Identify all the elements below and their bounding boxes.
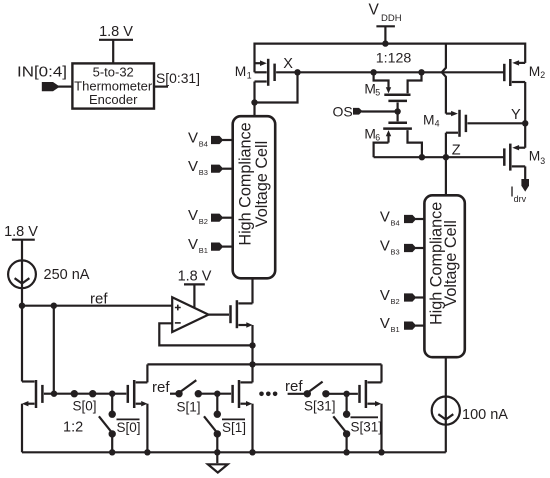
wire ground rail bbox=[22, 449, 446, 455]
svg-text:Z: Z bbox=[452, 143, 461, 159]
svg-text:B2: B2 bbox=[391, 297, 400, 306]
svg-text:4: 4 bbox=[435, 119, 440, 129]
svg-text:S[0]: S[0] bbox=[117, 420, 141, 435]
bias input V_B2 (right) bbox=[380, 287, 425, 306]
svg-text:V: V bbox=[188, 236, 198, 253]
svg-text:6: 6 bbox=[375, 132, 380, 142]
node X bbox=[251, 56, 300, 116]
bias input V_B3 (left) bbox=[188, 158, 233, 177]
svg-text:1.8 V: 1.8 V bbox=[4, 224, 38, 240]
wire VDD top rail bbox=[255, 42, 526, 44]
op-amp A1 bbox=[172, 297, 208, 332]
svg-text:S[31]: S[31] bbox=[304, 399, 336, 414]
transistor cell 0 bbox=[128, 380, 148, 452]
svg-text:B4: B4 bbox=[391, 218, 400, 227]
transistor M1 (PMOS mirror input) bbox=[235, 43, 298, 103]
svg-text:S[31]: S[31] bbox=[351, 420, 383, 435]
svg-text:2: 2 bbox=[540, 70, 545, 80]
svg-text:Voltage Cell: Voltage Cell bbox=[442, 220, 460, 306]
supply 1.8 V (reference branch) bbox=[4, 224, 38, 260]
svg-text:V: V bbox=[188, 207, 198, 224]
transistor mirror input (1:2) bbox=[22, 380, 54, 452]
svg-text:OS: OS bbox=[333, 103, 353, 119]
high compliance voltage cell (left) bbox=[233, 116, 276, 278]
input port IN[0:4] bbox=[17, 64, 72, 91]
high compliance voltage cell (right) bbox=[424, 195, 464, 357]
svg-text:5-to-32: 5-to-32 bbox=[93, 65, 134, 80]
wire drain rail bbox=[147, 361, 381, 382]
svg-text:B4: B4 bbox=[199, 139, 208, 148]
switch S̄[31] bbox=[333, 394, 382, 453]
svg-text:M: M bbox=[364, 82, 376, 97]
transistor M6 bbox=[364, 112, 422, 158]
svg-text:S[1]: S[1] bbox=[177, 400, 201, 415]
transistor cell 31 bbox=[360, 380, 382, 452]
svg-text:V: V bbox=[380, 208, 390, 225]
wire gate line / switch S[0] bbox=[51, 390, 127, 414]
svg-text:Y: Y bbox=[511, 107, 521, 123]
bias input V_B4 (right) bbox=[380, 208, 425, 227]
svg-text:1.8 V: 1.8 V bbox=[178, 269, 212, 285]
svg-text:Voltage Cell: Voltage Cell bbox=[253, 141, 271, 227]
svg-text:ref: ref bbox=[285, 378, 303, 395]
svg-text:M: M bbox=[235, 64, 247, 79]
ground bbox=[208, 452, 228, 472]
input OS bbox=[333, 103, 401, 119]
svg-text:V: V bbox=[188, 129, 198, 146]
supply 1.8 V (op-amp) bbox=[178, 269, 212, 308]
wire current source down to mirror bbox=[21, 288, 23, 381]
supply 1.8 V (encoder) bbox=[99, 24, 133, 63]
svg-text:B1: B1 bbox=[199, 246, 208, 255]
svg-text:S[0:31]: S[0:31] bbox=[156, 71, 200, 86]
svg-text:ref: ref bbox=[152, 379, 170, 396]
svg-text:1:2: 1:2 bbox=[63, 420, 83, 436]
wire right cell to current source bbox=[445, 357, 447, 396]
bias input V_B2 (left) bbox=[188, 207, 233, 226]
wire Z node to right cell bbox=[445, 157, 447, 195]
transistor M4 bbox=[423, 110, 525, 157]
svg-text:M: M bbox=[529, 64, 541, 79]
current source 100 nA bbox=[432, 397, 509, 425]
bias input V_B1 (right) bbox=[380, 315, 425, 334]
svg-text:3: 3 bbox=[540, 156, 545, 166]
cell 1 ref switch S[1] bbox=[152, 379, 231, 415]
switch S̄[0] bbox=[99, 394, 141, 453]
svg-text:5: 5 bbox=[375, 87, 380, 97]
wire op-amp output bbox=[209, 314, 230, 316]
svg-text:V: V bbox=[380, 315, 390, 332]
svg-text:1.8 V: 1.8 V bbox=[99, 24, 133, 40]
transistor M2 bbox=[504, 43, 545, 148]
svg-text:M: M bbox=[529, 149, 541, 164]
svg-text:100 nA: 100 nA bbox=[462, 407, 508, 423]
bias input V_B4 (left) bbox=[188, 129, 233, 148]
wire ref to switch row bbox=[53, 306, 55, 394]
node Y bbox=[511, 107, 528, 127]
output port S[0:31] bbox=[154, 71, 200, 87]
svg-text:M: M bbox=[364, 127, 376, 142]
ellipsis dots bbox=[259, 392, 277, 397]
wire feedback loop bbox=[159, 323, 255, 348]
transistor M5 bbox=[364, 69, 424, 111]
encoder U1: 5-to-32 thermometer encoder bbox=[72, 63, 154, 108]
svg-text:V: V bbox=[380, 237, 390, 254]
svg-text:X: X bbox=[283, 56, 293, 72]
bias input V_B1 (left) bbox=[188, 236, 233, 255]
svg-text:S[0]: S[0] bbox=[73, 399, 97, 414]
transistor cell 1 bbox=[233, 380, 253, 452]
svg-text:DDH: DDH bbox=[381, 13, 402, 24]
svg-text:B3: B3 bbox=[391, 247, 400, 256]
current source 250 nA bbox=[8, 260, 90, 288]
svg-text:V: V bbox=[380, 287, 390, 304]
switch S̄[1] bbox=[204, 394, 246, 453]
svg-text:B2: B2 bbox=[199, 217, 208, 226]
transistor follower bbox=[231, 278, 253, 382]
bias input V_B3 (right) bbox=[380, 237, 425, 256]
wire VDD feed to M4 with crossover jog bbox=[442, 44, 446, 114]
wire Z rail bbox=[374, 154, 505, 160]
svg-text:V: V bbox=[188, 158, 198, 175]
wire current source to ground rail bbox=[445, 425, 447, 453]
transistor M3 bbox=[504, 144, 545, 180]
svg-text:250 nA: 250 nA bbox=[44, 267, 90, 283]
power V_DDH bbox=[369, 2, 402, 47]
svg-text:M: M bbox=[423, 113, 435, 128]
node ref bbox=[19, 291, 172, 309]
svg-text:1: 1 bbox=[247, 70, 252, 80]
svg-text:Encoder: Encoder bbox=[89, 92, 138, 107]
svg-text:S[1]: S[1] bbox=[222, 420, 246, 435]
svg-text:B3: B3 bbox=[199, 168, 208, 177]
cell 31 ref switch S[31] bbox=[285, 378, 358, 414]
svg-text:ref: ref bbox=[90, 291, 108, 308]
svg-text:IN[0:4]: IN[0:4] bbox=[17, 64, 67, 80]
wire X rail bbox=[298, 71, 505, 73]
svg-text:V: V bbox=[369, 2, 380, 19]
output I_drv bbox=[510, 179, 529, 204]
svg-text:drv: drv bbox=[514, 194, 527, 204]
svg-text:B1: B1 bbox=[391, 325, 400, 334]
svg-text:1:128: 1:128 bbox=[376, 51, 412, 67]
